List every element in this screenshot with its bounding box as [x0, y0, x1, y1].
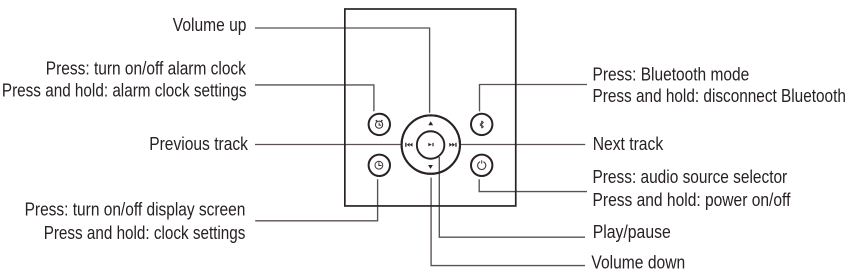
svg-text:Press: Bluetooth mode: Press: Bluetooth mode	[593, 65, 750, 85]
svg-text:Press and hold: disconnect Blu: Press and hold: disconnect Bluetooth	[593, 86, 846, 106]
button: alarm clock	[369, 114, 390, 135]
svg-text:Press and hold: power on/off: Press and hold: power on/off	[593, 190, 792, 210]
label: Press and hold: disconnect Bluetooth	[593, 86, 846, 106]
label: Press and hold: clock settings	[44, 223, 246, 243]
icon: next track	[449, 143, 456, 147]
label: Play/pause	[593, 222, 671, 242]
svg-text:Press and hold: clock settings: Press and hold: clock settings	[44, 223, 246, 243]
svg-text:Volume down: Volume down	[591, 253, 685, 273]
control pad inner button (play/pause)	[417, 131, 445, 159]
icon: volume up arrow	[428, 121, 433, 125]
svg-text:Press: turn on/off alarm clock: Press: turn on/off alarm clock	[46, 58, 247, 78]
svg-text:Press: audio source selector: Press: audio source selector	[593, 167, 788, 187]
svg-text:Press and hold: alarm clock se: Press and hold: alarm clock settings	[2, 81, 247, 101]
label: Volume down	[591, 253, 685, 273]
svg-text:Previous track: Previous track	[149, 134, 249, 154]
label: Next track	[593, 134, 664, 154]
wire: volume down callout	[431, 178, 585, 266]
control pad outer ring stroke (overlap)	[402, 115, 460, 173]
svg-text:Next track: Next track	[593, 134, 664, 154]
label: Press: audio source selector	[593, 167, 788, 187]
control pad outer ring	[402, 115, 460, 173]
icon: power	[478, 160, 486, 169]
panel outline	[345, 9, 516, 206]
label: Press and hold: alarm clock settings	[2, 81, 247, 101]
label: Press: Bluetooth mode	[593, 65, 750, 85]
button: power	[471, 155, 492, 176]
button: clock	[369, 155, 390, 176]
wire: alarm clock callout	[255, 85, 374, 111]
icon: alarm clock	[376, 120, 383, 128]
wire: next track callout	[461, 144, 585, 146]
wire: volume up callout	[255, 28, 430, 113]
label: Press: turn on/off display screen	[25, 200, 246, 220]
icon: previous track	[405, 143, 412, 147]
icon: volume down arrow	[428, 165, 433, 169]
icon: bluetooth	[480, 121, 483, 129]
icon: clock	[375, 161, 383, 169]
wire: play/pause callout	[439, 157, 585, 237]
wire: display/clock callout	[255, 179, 377, 221]
label: Press and hold: power on/off	[593, 190, 792, 210]
wire: power callout	[479, 179, 587, 191]
button: bluetooth	[471, 114, 492, 135]
svg-text:Volume up: Volume up	[173, 15, 247, 35]
svg-text:Play/pause: Play/pause	[593, 222, 671, 242]
label: Volume up	[173, 15, 247, 35]
label: Press: turn on/off alarm clock	[46, 58, 247, 78]
wire: previous track callout	[255, 144, 401, 146]
icon: play/pause	[428, 143, 433, 146]
wire: bluetooth callout	[480, 85, 588, 112]
label: Previous track	[149, 134, 249, 154]
svg-text:Press: turn on/off display scr: Press: turn on/off display screen	[25, 200, 246, 220]
